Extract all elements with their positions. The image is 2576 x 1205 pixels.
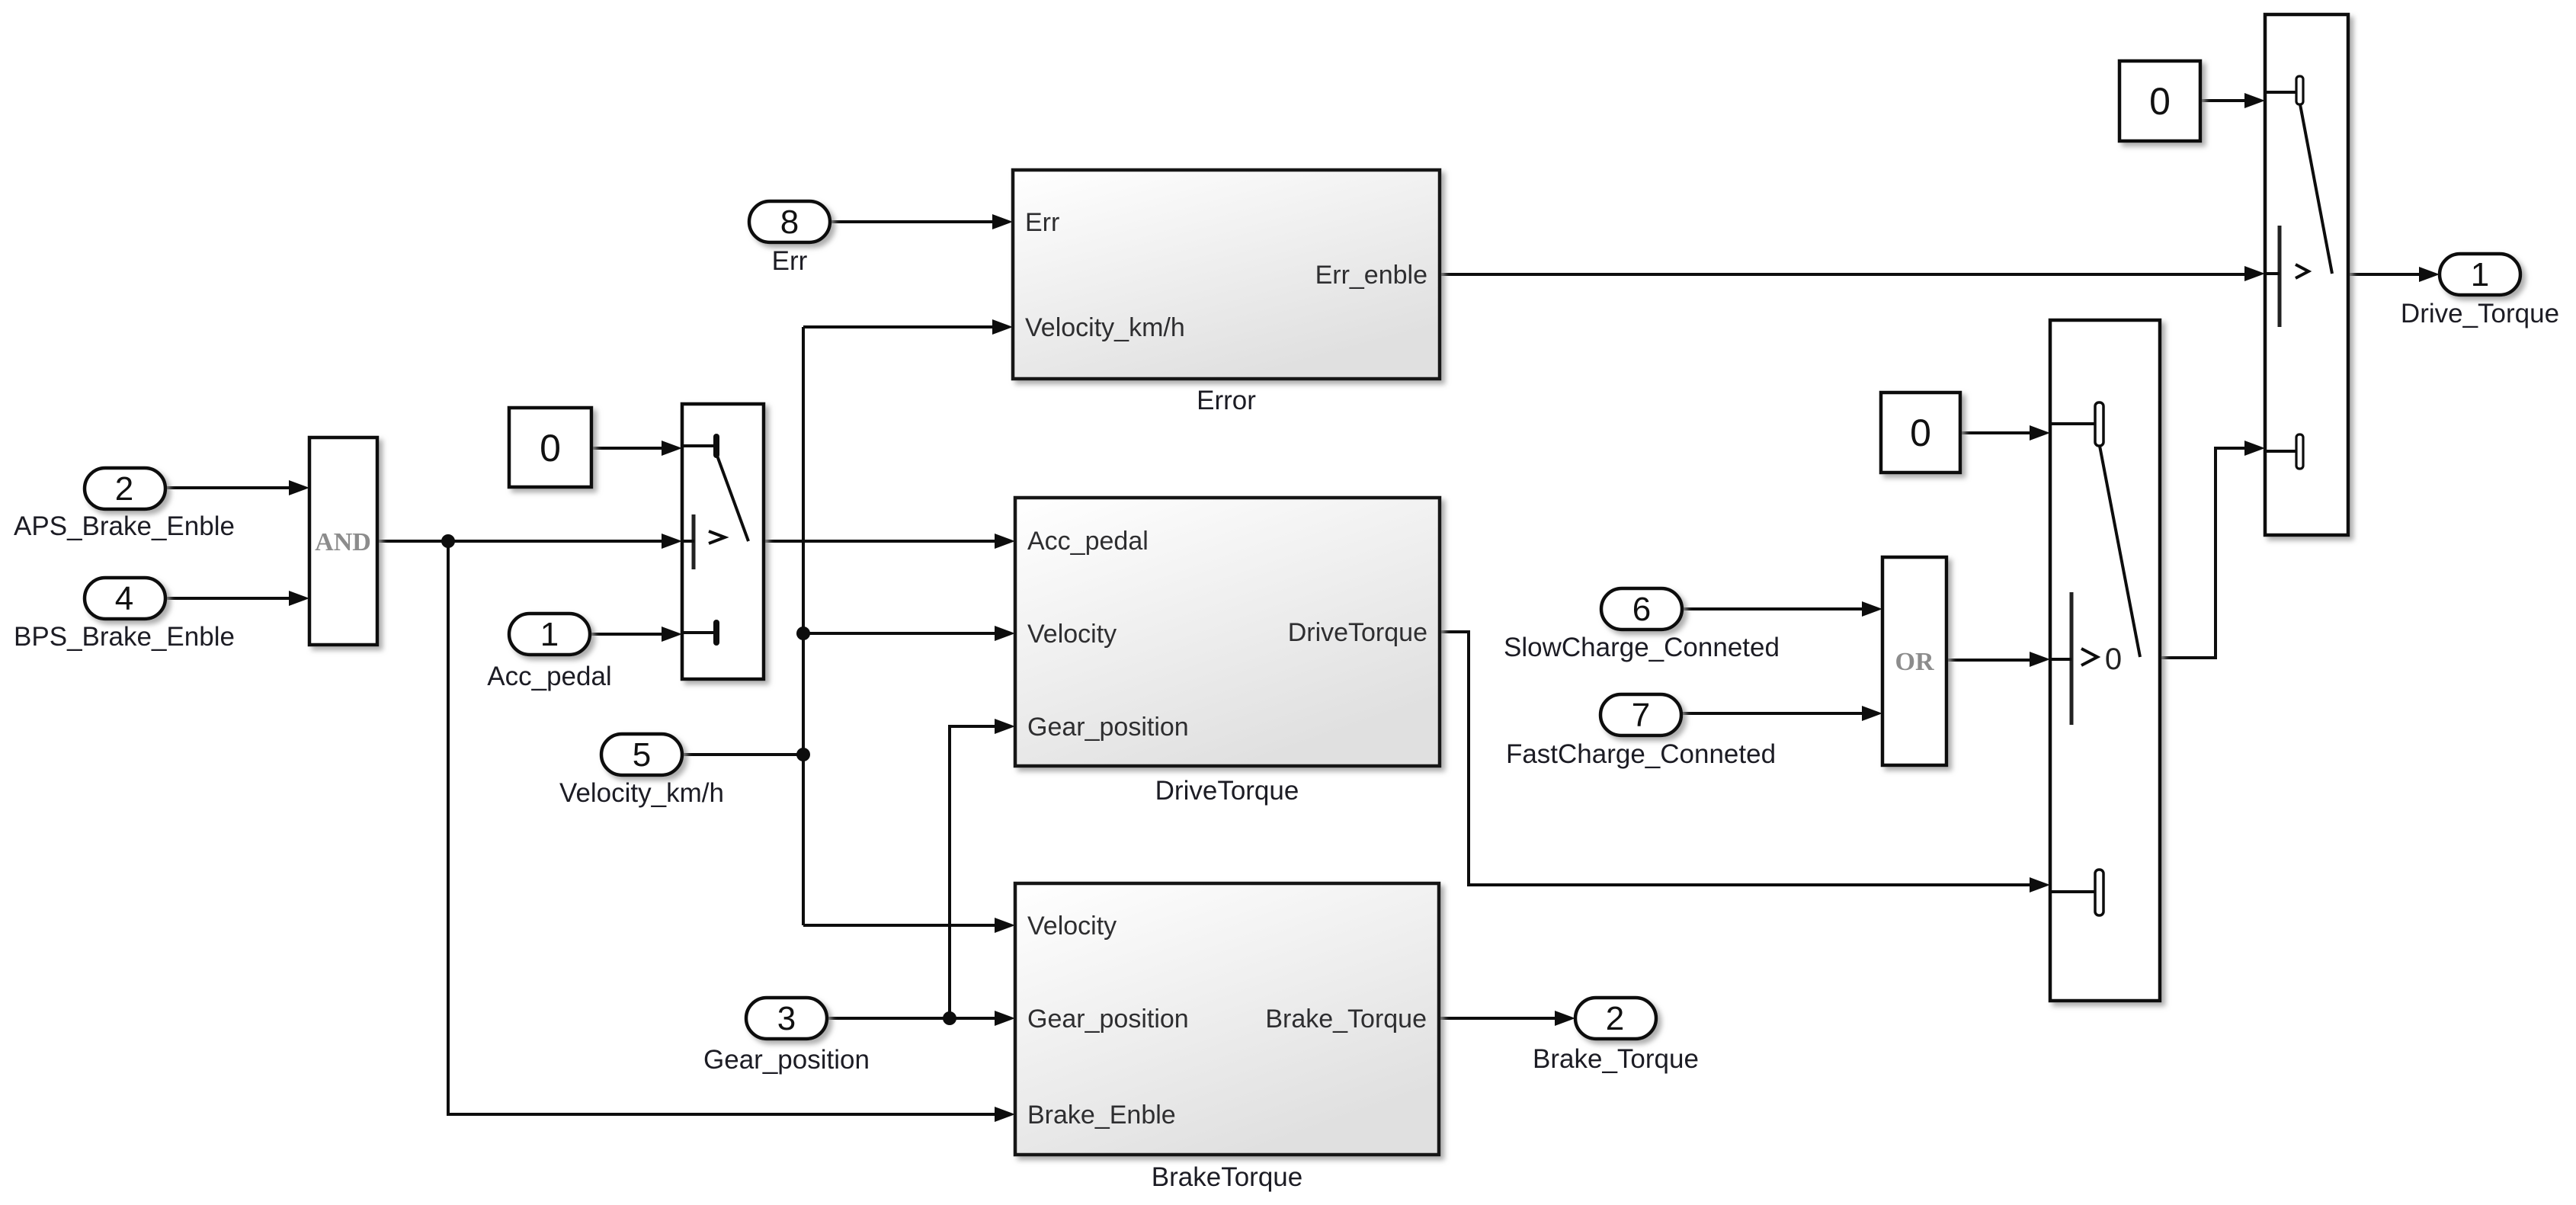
svg-text:Gear_position: Gear_position bbox=[1027, 1005, 1189, 1034]
svg-text:OR: OR bbox=[1895, 648, 1934, 676]
svg-text:0: 0 bbox=[540, 427, 561, 470]
svg-text:Acc_pedal: Acc_pedal bbox=[1027, 527, 1149, 556]
svg-text:0: 0 bbox=[2105, 643, 2122, 676]
svg-text:APS_Brake_Enble: APS_Brake_Enble bbox=[14, 511, 235, 541]
svg-text:7: 7 bbox=[1632, 697, 1650, 734]
svg-text:3: 3 bbox=[777, 1000, 796, 1037]
svg-text:4: 4 bbox=[115, 580, 133, 617]
svg-text:0: 0 bbox=[2149, 80, 2171, 123]
svg-text:Acc_pedal: Acc_pedal bbox=[487, 662, 611, 691]
svg-text:8: 8 bbox=[780, 204, 799, 241]
svg-text:Brake_Enble: Brake_Enble bbox=[1027, 1101, 1176, 1130]
svg-text:Brake_Torque: Brake_Torque bbox=[1265, 1005, 1427, 1034]
svg-text:Velocity_km/h: Velocity_km/h bbox=[559, 778, 724, 808]
svg-text:SlowCharge_Conneted: SlowCharge_Conneted bbox=[1504, 633, 1780, 662]
svg-text:Gear_position: Gear_position bbox=[703, 1045, 870, 1075]
svg-text:1: 1 bbox=[540, 616, 559, 653]
svg-text:0: 0 bbox=[1910, 412, 1931, 454]
svg-text:FastCharge_Conneted: FastCharge_Conneted bbox=[1506, 739, 1776, 769]
svg-text:Velocity: Velocity bbox=[1027, 912, 1117, 941]
svg-text:Velocity_km/h: Velocity_km/h bbox=[1025, 313, 1185, 342]
svg-text:DriveTorque: DriveTorque bbox=[1288, 618, 1427, 647]
svg-text:Err_enble: Err_enble bbox=[1315, 261, 1427, 290]
svg-text:DriveTorque: DriveTorque bbox=[1155, 776, 1299, 806]
svg-text:AND: AND bbox=[315, 528, 371, 556]
svg-text:1: 1 bbox=[2471, 256, 2489, 293]
svg-text:Err: Err bbox=[772, 246, 808, 276]
svg-text:Gear_position: Gear_position bbox=[1027, 713, 1189, 742]
svg-text:5: 5 bbox=[633, 736, 651, 774]
svg-text:Brake_Torque: Brake_Torque bbox=[1533, 1044, 1699, 1074]
svg-text:2: 2 bbox=[115, 470, 133, 508]
svg-text:Error: Error bbox=[1197, 386, 1256, 415]
svg-text:BrakeTorque: BrakeTorque bbox=[1152, 1162, 1302, 1192]
svg-text:Velocity: Velocity bbox=[1027, 620, 1117, 649]
svg-text:BPS_Brake_Enble: BPS_Brake_Enble bbox=[14, 622, 235, 652]
svg-text:Err: Err bbox=[1025, 208, 1059, 237]
svg-text:2: 2 bbox=[1606, 1000, 1624, 1037]
svg-text:Drive_Torque: Drive_Torque bbox=[2401, 299, 2559, 328]
svg-text:6: 6 bbox=[1632, 591, 1651, 628]
